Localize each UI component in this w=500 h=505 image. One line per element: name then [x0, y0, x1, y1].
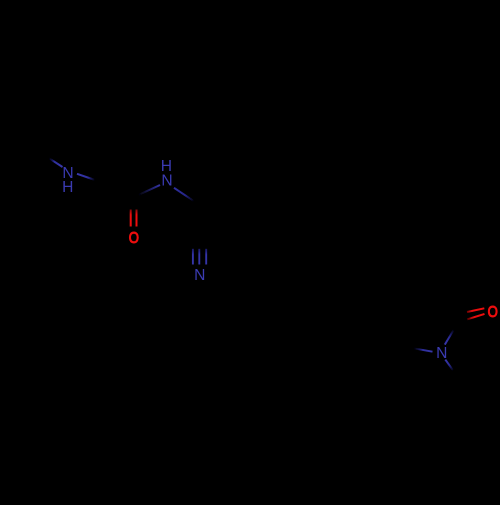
wire bond lactam N to methyl	[445, 360, 453, 371]
svg-text:H: H	[62, 179, 73, 196]
capacitor-like C=O double bond (lactam carbonyl)	[467, 308, 484, 312]
capacitor-like C=O double bond (amide carbonyl)	[130, 210, 132, 227]
wire bond N to alpha carbon	[77, 174, 95, 180]
wire bond CH3 to N (methylamino)	[49, 158, 63, 167]
svg-text:N: N	[194, 267, 205, 284]
svg-text:O: O	[129, 230, 139, 247]
wire bond ring CH2 to lactam N	[414, 348, 433, 351]
wire bond lactam N to carbonyl C	[445, 330, 454, 345]
wire bond carbonyl C to amide N	[138, 185, 160, 195]
wire bond amide N to quaternary carbon	[174, 188, 194, 201]
svg-text:N: N	[161, 173, 172, 190]
svg-text:O: O	[488, 304, 498, 321]
nitrile C#N triple bond	[192, 249, 194, 265]
